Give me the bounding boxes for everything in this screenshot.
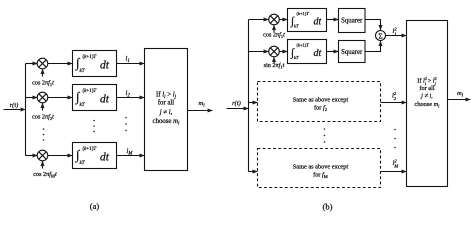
caption (b) [323, 202, 333, 212]
wire squarer 1 to summer (b) [365, 20, 381, 31]
wire dashed box 2 output lM^2 (b) [381, 171, 407, 173]
wire integrator 1 to squarer 1 (b) [327, 19, 339, 21]
wire cos 2pi f2 t carrier into X2a [42, 103, 44, 111]
svg-text:(k+1)T: (k+1)T [83, 55, 98, 60]
svg-text:dt: dt [100, 60, 110, 72]
svg-text:kT: kT [294, 55, 299, 60]
svg-text:Squarer: Squarer [341, 18, 363, 25]
multiplier X1b [269, 14, 280, 25]
svg-text:cos 2πf1t: cos 2πf1t [263, 32, 285, 40]
wire X2b to integrator 2 (b) [279, 51, 287, 53]
squarer box 2 (b) [339, 41, 366, 63]
svg-text:dt: dt [100, 152, 110, 164]
integrator box 3 (a) [73, 143, 117, 169]
label l2^2 [392, 91, 397, 101]
dashed box: same as above except for fM [258, 149, 381, 188]
svg-text:j ≠ i,: j ≠ i, [159, 109, 173, 116]
label l2 [126, 90, 131, 98]
integrator box 1 (b) [288, 9, 327, 32]
wire bus to multiplier 2 (b) [249, 51, 269, 53]
wire X2a to integrator 2 (a) [48, 97, 73, 99]
dashed box: same as above except for f2 [258, 82, 381, 122]
wire integrator 2 output l2 (a) [117, 97, 145, 99]
svg-text:dt: dt [100, 94, 110, 106]
wire vertical bus (b) [248, 20, 250, 172]
multiplier X2b [269, 46, 280, 57]
svg-text:Σ: Σ [378, 31, 382, 40]
svg-text:r(t): r(t) [232, 100, 241, 107]
multiplier X3a [37, 150, 48, 161]
wire X1b to integrator 1 (b) [279, 19, 287, 21]
label l1 [126, 56, 130, 64]
label lM [127, 148, 134, 156]
wire bus to multiplier 2 (a) [26, 97, 38, 99]
svg-text:choose mi: choose mi [153, 118, 181, 126]
node r(t) input label (a) [10, 102, 19, 109]
wire bus to multiplier 1 (b) [249, 19, 269, 21]
wire bus to dashed box 2 (b) [249, 171, 258, 173]
integrator box 2 (a) [73, 85, 117, 111]
wire sin carrier into X2b [273, 57, 275, 64]
wire integrator 2 to squarer 2 (b) [327, 51, 339, 53]
label sin 2pi f1 t (b) [264, 62, 285, 70]
svg-text:l1: l1 [126, 56, 130, 64]
svg-text:cos 2πf2t: cos 2πf2t [32, 114, 54, 122]
svg-text:kT: kT [80, 161, 86, 166]
label sigma [378, 31, 382, 40]
svg-text:(a): (a) [90, 201, 100, 211]
svg-text:lM: lM [127, 148, 134, 156]
wire cos 2pi f1 t carrier into X1a [42, 69, 44, 77]
svg-text:(k+1)T: (k+1)T [297, 43, 310, 48]
ellipsis dots multiplier column (a) [43, 128, 45, 141]
wire squarer 2 to summer (b) [365, 41, 381, 52]
svg-text:(k+1)T: (k+1)T [297, 11, 310, 16]
svg-text:cos 2πfMt: cos 2πfMt [33, 171, 57, 179]
svg-text:kT: kT [80, 103, 86, 108]
wire r(t) input (b) [227, 108, 249, 110]
wire bus to multiplier 1 (a) [26, 63, 38, 65]
wire cos carrier into X1b [273, 25, 275, 32]
label m_i (a) [199, 100, 206, 108]
wire r(t) input (a) [4, 109, 26, 111]
wire decision output m_i (a) [188, 110, 213, 112]
svg-text:l2M: l2M [393, 158, 399, 168]
svg-text:dt: dt [314, 48, 322, 59]
svg-text:for fM: for fM [313, 172, 328, 179]
wire vertical bus (a) [25, 64, 27, 156]
wire summer output l1^2 (b) [386, 35, 407, 37]
label cos 2pi f2 t (a) [32, 114, 54, 122]
svg-text:sin 2πf1t: sin 2πf1t [264, 62, 285, 70]
label lM^2 [393, 158, 399, 168]
ellipsis dots between dashed boxes (b) [324, 128, 326, 143]
wire integrator 1 output l1 (a) [117, 63, 145, 65]
svg-text:r(t): r(t) [10, 102, 19, 109]
svg-text:choose mi: choose mi [415, 101, 441, 108]
svg-text:mi: mi [199, 100, 206, 108]
svg-text:(k+1)T: (k+1)T [83, 89, 98, 94]
svg-text:Same as above except: Same as above except [293, 164, 349, 171]
wire cos 2pi fM t carrier into X3a [42, 161, 44, 169]
integrator box 2 (b) [288, 40, 327, 64]
decision box (b) [407, 21, 448, 187]
svg-text:(b): (b) [323, 202, 333, 212]
wire X3a to integrator 3 (a) [48, 155, 73, 157]
svg-text:kT: kT [80, 69, 86, 74]
decision box (a) [145, 49, 188, 171]
ellipsis dots decision inputs (b) [394, 129, 396, 149]
summer circle (b) [376, 31, 386, 41]
wire dashed box 1 output l2^2 (b) [381, 102, 407, 104]
wire bus to multiplier 3 (a) [26, 155, 38, 157]
svg-text:l21: l21 [393, 26, 398, 36]
svg-text:mi: mi [457, 90, 464, 98]
wire X1a to integrator 1 (a) [48, 63, 73, 65]
ellipsis dots output column (a) [125, 117, 127, 132]
wire bus to dashed box 1 (b) [249, 102, 258, 104]
svg-text:for all: for all [158, 100, 175, 107]
caption (a) [90, 201, 100, 211]
multiplier X2a [37, 92, 48, 103]
svg-text:l22: l22 [392, 91, 397, 101]
label cos 2pi f1 t (b) [263, 32, 285, 40]
label cos 2pi fM t (a) [33, 171, 57, 179]
svg-text:dt: dt [314, 17, 322, 28]
svg-text:cos 2πf1t: cos 2πf1t [32, 80, 54, 88]
svg-text:j ≠ i,: j ≠ i, [420, 93, 433, 100]
label m_i (b) [457, 90, 464, 98]
svg-text:(k+1)T: (k+1)T [83, 147, 98, 152]
integrator box 1 (a) [73, 51, 117, 77]
ellipsis dots integrator column (a) [93, 120, 95, 133]
svg-text:for f2: for f2 [314, 105, 328, 112]
svg-text:for all: for all [419, 85, 434, 92]
wire integrator 3 output lM (a) [117, 155, 145, 157]
label cos 2pi f1 t (a) [32, 80, 54, 88]
multiplier X1a [37, 58, 48, 69]
svg-text:kT: kT [294, 24, 299, 29]
svg-text:Squarer: Squarer [341, 49, 363, 56]
squarer box 1 (b) [339, 9, 366, 33]
node r(t) input label (b) [232, 100, 241, 107]
wire decision output m_i (b) [448, 99, 471, 101]
svg-text:Same as above except: Same as above except [293, 97, 349, 104]
label l1^2 [393, 26, 398, 36]
